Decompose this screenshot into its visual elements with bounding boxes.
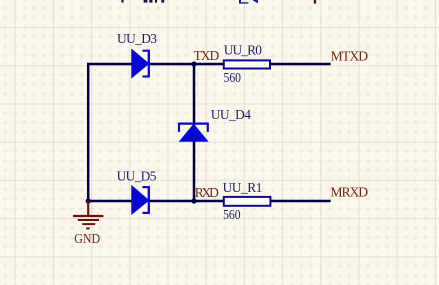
svg-text:GND: GND — [74, 232, 100, 247]
svg-text:560: 560 — [223, 207, 241, 222]
junction node GND — [86, 198, 91, 203]
wire bottom-middle horizontal — [148, 200, 224, 203]
svg-text:UU_D5: UU_D5 — [117, 169, 157, 184]
svg-text:UU_D3: UU_D3 — [117, 31, 157, 46]
resistor UU_R1 — [224, 197, 271, 206]
wire top-middle horizontal — [148, 63, 224, 66]
junction node RXD — [191, 198, 196, 203]
svg-text:UU_D4: UU_D4 — [211, 107, 251, 122]
wire top-right horizontal — [270, 63, 330, 66]
svg-text:UU_R1: UU_R1 — [223, 180, 263, 195]
svg-text:UU_R0: UU_R0 — [224, 42, 262, 57]
diode UU_D3 — [132, 50, 149, 78]
svg-text:560: 560 — [224, 70, 242, 85]
svg-text:MRXD: MRXD — [330, 184, 368, 199]
svg-text:TXD: TXD — [194, 48, 220, 63]
wire bottom-left horizontal — [88, 200, 132, 203]
wire middle vertical — [193, 64, 196, 201]
diode UU_D5 — [132, 186, 149, 214]
wire left vertical — [87, 63, 90, 201]
resistor UU_R0 — [224, 60, 270, 68]
junction node TXD — [191, 61, 196, 66]
svg-text:RXD: RXD — [195, 185, 219, 200]
diode UU_D4 — [178, 124, 209, 142]
clipped text fragment top left — [121, 0, 164, 3]
clipped blue glyph fragment top center — [239, 0, 258, 4]
ground symbol — [73, 201, 103, 228]
wire top-left horizontal — [87, 63, 132, 66]
svg-text:MTXD: MTXD — [331, 49, 369, 64]
wire bottom-right horizontal — [270, 200, 330, 203]
clipped net label fragment top right — [314, 0, 316, 4]
